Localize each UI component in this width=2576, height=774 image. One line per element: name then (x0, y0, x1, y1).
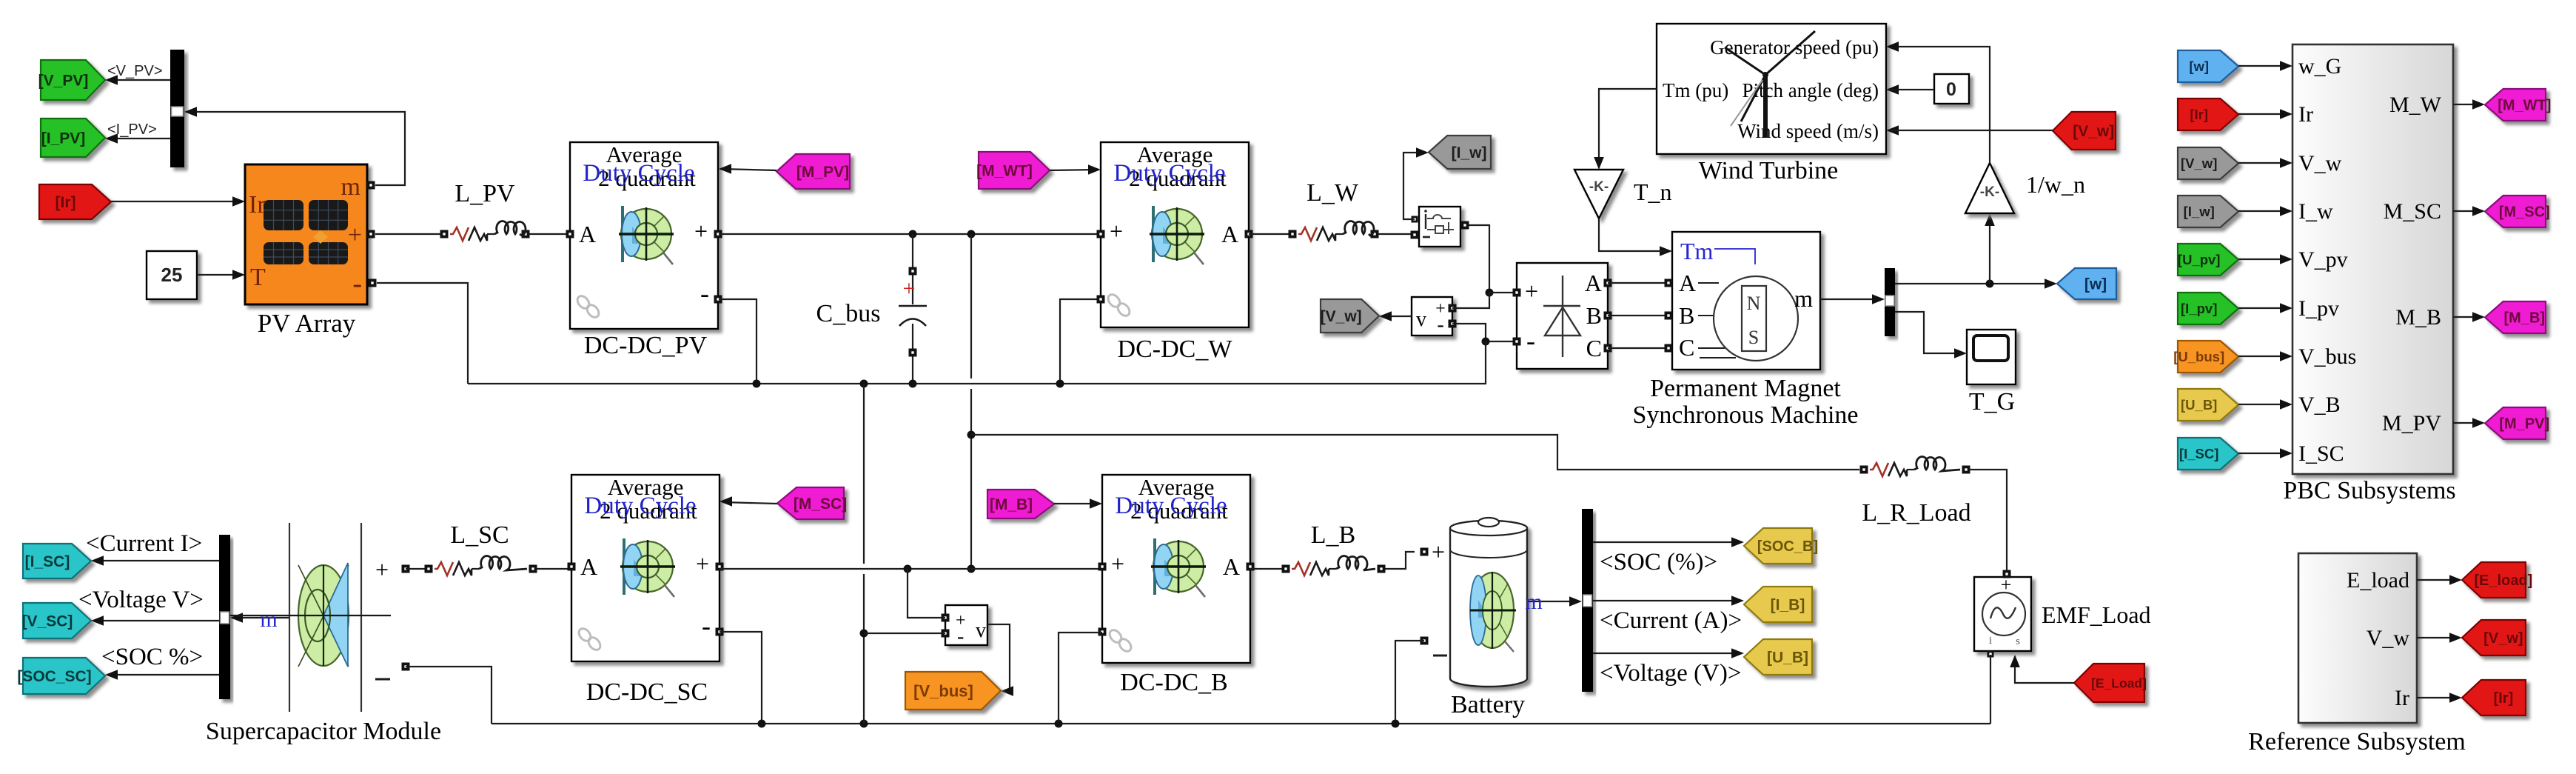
PBC input label V_bus (2298, 344, 2356, 369)
label Synchronous Machine (1632, 401, 1858, 429)
scope block T_G (1967, 330, 2016, 384)
svg-text:L_W: L_W (1307, 179, 1359, 207)
junction v+ tap (904, 565, 912, 573)
svg-text:M_SC: M_SC (2384, 199, 2441, 224)
goto tag [M_PV] (2485, 407, 2549, 439)
wire [Ir] to PBC Ir (2238, 109, 2292, 119)
svg-text:+: + (903, 276, 916, 301)
block Reference Subsystem (2298, 553, 2417, 723)
wire L_PV to DC-DC_PV A (529, 233, 570, 235)
wire bus to load (line B) (971, 435, 1859, 470)
block PBC Subsystems (2292, 44, 2453, 474)
label Reference Subsystem (2248, 728, 2466, 755)
node label <V_PV> (107, 63, 163, 79)
svg-text:v: v (976, 619, 986, 642)
svg-text:I_w: I_w (2298, 199, 2333, 224)
wire EMF_Load - to return bus (1990, 655, 1991, 724)
wire SC bar to V_SC (91, 615, 219, 626)
junction at row2 (967, 565, 976, 573)
junction DC-DC_SC minus return (758, 720, 766, 728)
svg-text:PBC Subsystems: PBC Subsystems (2283, 477, 2455, 504)
svg-text:[V_w]: [V_w] (2483, 630, 2523, 647)
label DC-DC_PV (584, 332, 708, 359)
svg-text:Duty Cycle: Duty Cycle (1115, 493, 1227, 519)
label T_G (1969, 388, 2015, 416)
label <Voltage V> (78, 587, 204, 613)
svg-text:I_pv: I_pv (2298, 296, 2339, 321)
PBC input label w_G (2298, 54, 2341, 79)
goto tag I_w (1429, 136, 1491, 169)
from tag M_SC (777, 487, 847, 519)
svg-text:25: 25 (161, 264, 183, 286)
svg-text:[U_B]: [U_B] (1767, 650, 1808, 667)
label EMF_Load (2042, 601, 2151, 628)
wire PV Array m to bus bar (184, 107, 405, 185)
wire WT Tm to gain T_n (1594, 89, 1657, 170)
label DC-DC_SC (586, 678, 708, 706)
PBC input label Ir (2298, 102, 2313, 127)
svg-text:<Current I>: <Current I> (86, 530, 202, 557)
svg-text:A: A (1679, 270, 1696, 296)
wire [U_B] to PBC V_B (2238, 399, 2292, 410)
svg-text:V_pv: V_pv (2298, 247, 2348, 272)
junction line B (967, 431, 976, 439)
svg-text:I_SC: I_SC (2298, 441, 2344, 466)
svg-text:i: i (1989, 635, 1992, 647)
svg-text:[SOC_SC]: [SOC_SC] (17, 668, 91, 685)
wire PV - down to negative bus (377, 283, 468, 384)
bus selector bar (PV measurements) (170, 50, 184, 167)
svg-text:+: + (694, 218, 708, 244)
wire [I_pv] to PBC I_pv (2238, 303, 2292, 313)
svg-text:+: + (696, 550, 709, 577)
svg-text:M_B: M_B (2395, 305, 2441, 330)
goto tag [E_load] (2462, 562, 2532, 598)
label Wind Turbine (1699, 157, 1839, 184)
inductor-resistor branch L_B (1282, 556, 1386, 576)
svg-text:M_W: M_W (2389, 93, 2442, 117)
wire voltage measurement to V_w tag (1379, 311, 1412, 321)
svg-text:A: A (580, 553, 597, 580)
svg-text:A: A (1585, 270, 1602, 296)
block Wind Turbine (1657, 24, 1886, 154)
svg-text:[U_pv]: [U_pv] (2178, 252, 2221, 267)
wire v- to rectifier - (1452, 324, 1513, 341)
wire L_W to current measurement (1378, 233, 1415, 235)
Reference output label Ir (2395, 686, 2409, 710)
svg-text:[M_WT]: [M_WT] (976, 163, 1033, 180)
wire w to gain 1/w_n (1985, 213, 1995, 284)
bus selector bar (supercapacitor) (219, 535, 230, 699)
svg-text:DC-DC_W: DC-DC_W (1118, 336, 1233, 363)
svg-text:[M_B]: [M_B] (990, 496, 1033, 513)
supercapacitor icon (230, 523, 391, 712)
svg-text:[I_SC]: [I_SC] (2179, 446, 2218, 461)
svg-text:Ir: Ir (2298, 102, 2313, 127)
wire PBC M_PV to [M_PV] (2453, 418, 2485, 428)
PBC output label M_PV (2382, 411, 2441, 436)
wire DC-DC_PV - to negative bus (719, 299, 757, 381)
wire PV + to L_PV (375, 233, 440, 235)
svg-text:Permanent Magnet: Permanent Magnet (1650, 375, 1841, 402)
goto tag I_B (1744, 587, 1812, 622)
wire battery m to measurement bar (1527, 596, 1582, 607)
svg-text:-: - (700, 278, 709, 308)
goto tag SOC_B (1744, 528, 1818, 564)
from tag [I_w] to PBC I_w (2178, 196, 2238, 227)
svg-text:<SOC %>: <SOC %> (101, 644, 203, 670)
from tag [Ir] to PBC Ir (2178, 99, 2238, 130)
svg-text:[Ir]: [Ir] (56, 194, 76, 211)
wire V_w tag to wind speed (1890, 130, 2053, 131)
from tag Ir (39, 184, 111, 219)
wire M_B to DC-DC_B (1054, 498, 1102, 509)
PBC input label I_w (2298, 199, 2333, 224)
svg-text:[SOC_B]: [SOC_B] (1757, 538, 1818, 555)
wire SC bar to I_SC (91, 556, 219, 566)
svg-text:[V_SC]: [V_SC] (22, 613, 73, 630)
bus selector bar (battery measurements) (1582, 509, 1593, 692)
voltage measurement block (wind) (1412, 297, 1457, 336)
PBC output label M_B (2395, 305, 2441, 330)
wire PMSM m to speed bus bar (1820, 294, 1885, 304)
svg-text:E_load: E_load (2347, 568, 2409, 593)
svg-text:Synchronous Machine: Synchronous Machine (1632, 401, 1858, 429)
svg-text:<Voltage (V)>: <Voltage (V)> (1600, 660, 1742, 687)
label L_B (1311, 521, 1355, 549)
wire PBC M_B to [M_B] (2453, 312, 2485, 322)
from tag V_w (wind speed) (2053, 112, 2116, 150)
junction negative bus x1167 (860, 380, 868, 388)
wire speed to scope (1895, 312, 1967, 358)
svg-text:m: m (260, 607, 277, 632)
wire DC-DC_W A to L_W (1249, 233, 1292, 235)
svg-text:Wind Turbine: Wind Turbine (1699, 157, 1839, 184)
svg-text:m: m (341, 173, 360, 201)
from tag [U_bus] to PBC V_bus (2173, 341, 2238, 373)
svg-text:Tm: Tm (1680, 238, 1714, 264)
label 1/w_n (2026, 171, 2085, 198)
wire SC bar to SOC_SC (105, 670, 219, 680)
svg-text:0: 0 (1946, 79, 1956, 100)
junction speed to gain (1986, 280, 1994, 288)
svg-text:L_B: L_B (1311, 521, 1355, 549)
svg-text:T_n: T_n (1634, 179, 1672, 205)
from tag [U_pv] to PBC V_pv (2178, 244, 2238, 276)
Reference output label E_load (2347, 568, 2409, 593)
svg-text:C: C (1586, 335, 1602, 361)
junction DC-DC_B minus return (1055, 720, 1063, 728)
label <SOC (%)> (1600, 549, 1717, 576)
PBC output label M_SC (2384, 199, 2441, 224)
label <Current (A)> (1600, 607, 1742, 634)
svg-text:<Current (A)>: <Current (A)> (1600, 607, 1742, 634)
converter block DC-DC_W (1097, 141, 1253, 327)
goto tag V_PV (38, 60, 105, 100)
svg-text:-: - (702, 611, 711, 641)
wire [V_w] to PBC V_w (2238, 158, 2292, 168)
wire PMSM Tm input (1660, 246, 1672, 256)
svg-text:Reference Subsystem: Reference Subsystem (2248, 728, 2466, 755)
label L_PV (455, 180, 515, 207)
gain block 1/w_n (1965, 163, 2014, 213)
wire bar to I_B (1593, 595, 1744, 606)
wire constant 0 to pitch angle (1890, 89, 1934, 90)
wire [U_pv] to PBC V_pv (2238, 254, 2292, 264)
svg-text:-K-: -K- (1980, 184, 1999, 200)
PBC output label M_W (2389, 93, 2442, 117)
from tag E_Load (2074, 664, 2147, 702)
label m (battery) (1525, 590, 1542, 614)
svg-text:Duty Cycle: Duty Cycle (583, 160, 694, 187)
svg-text:+: + (1111, 550, 1124, 577)
wire rectifier B to PMSM B (1608, 315, 1672, 316)
goto tag I_PV (41, 119, 105, 157)
rectifier block (diode bridge) (1513, 263, 1612, 369)
converter block DC-DC_B (1099, 474, 1255, 663)
svg-text:A: A (579, 221, 596, 247)
svg-text:DC-DC_SC: DC-DC_SC (586, 678, 708, 706)
PBC input label V_w (2298, 151, 2342, 176)
wire [w] to PBC w_G (2238, 61, 2292, 71)
svg-text:[V_PV]: [V_PV] (38, 73, 89, 90)
from tag [w] to PBC w_G (2178, 50, 2238, 82)
junction rectifier minus node (1482, 338, 1490, 346)
svg-text:[Ir]: [Ir] (2190, 107, 2208, 122)
from tag [V_w] to PBC V_w (2178, 147, 2238, 179)
wire L_SC to DC-DC_SC A (537, 568, 571, 570)
svg-text:L_R_Load: L_R_Load (1862, 499, 1970, 527)
svg-text:Duty Cycle: Duty Cycle (1113, 160, 1225, 187)
wire gain to wind turbine generator speed (1886, 41, 1990, 163)
label Permanent Magnet (1650, 375, 1841, 402)
svg-text:A: A (1223, 553, 1240, 580)
Reference output label V_w (2367, 626, 2410, 650)
svg-text:C: C (1679, 334, 1694, 361)
svg-text:m: m (1794, 285, 1813, 312)
wire current measurement to rectifier + (1469, 225, 1489, 293)
goto tag [M_WT] (2485, 89, 2551, 121)
wire SC + to L_SC (406, 568, 429, 570)
negative DC bus wire (468, 383, 1486, 384)
svg-text:V_w: V_w (2367, 626, 2410, 650)
wire DC-DC_B A to L_B (1250, 568, 1286, 570)
svg-text:L_SC: L_SC (450, 521, 509, 549)
capacitor C_bus (899, 234, 927, 384)
svg-text:[w]: [w] (2084, 276, 2107, 293)
svg-text:+: + (1432, 538, 1445, 565)
PBC input label I_SC (2298, 441, 2344, 466)
svg-text:[M_B]: [M_B] (2504, 310, 2546, 327)
wire negative bus to return bus (863, 384, 865, 724)
svg-text:v: v (1416, 308, 1426, 331)
wire WT wind speed input (1886, 125, 1899, 136)
svg-text:[I_pv]: [I_pv] (2181, 301, 2217, 316)
PBC input label I_pv (2298, 296, 2339, 321)
svg-text:Battery: Battery (1451, 691, 1525, 718)
svg-text:[U_B]: [U_B] (2181, 397, 2217, 413)
wire SC - to return bus (406, 667, 492, 724)
wire rectifier C to PMSM C (1608, 347, 1672, 349)
svg-text:Wind speed (m/s): Wind speed (m/s) (1737, 120, 1879, 142)
wire DC-DC_SC + to DC-DC_B + (720, 568, 1102, 570)
svg-text:Pitch angle (deg): Pitch angle (deg) (1743, 79, 1879, 101)
label DC-DC_W (1118, 336, 1233, 363)
constant block 0 (1934, 74, 1969, 104)
wire DC bus down branch (970, 234, 972, 569)
from tag M_WT (976, 152, 1050, 189)
mux bar (generator speed) (1885, 268, 1895, 336)
svg-text:EMF_Load: EMF_Load (2042, 601, 2151, 628)
wire L_R_Load to EMF_Load + (1970, 470, 2007, 570)
svg-text:[M_SC]: [M_SC] (794, 496, 847, 513)
from tag [I_SC] to PBC I_SC (2178, 438, 2238, 470)
svg-text:+: + (348, 221, 362, 249)
junction battery minus return (1392, 720, 1400, 728)
wire M_SC to DC-DC_SC (720, 496, 777, 507)
svg-text:[V_w]: [V_w] (1321, 308, 1362, 325)
svg-text:1/w_n: 1/w_n (2026, 171, 2085, 198)
svg-text:DC-DC_PV: DC-DC_PV (584, 332, 708, 359)
svg-text:T: T (250, 264, 266, 291)
svg-text:B: B (1586, 302, 1602, 329)
svg-text:T_G: T_G (1969, 388, 2015, 416)
wire bus+ to voltage measurement (908, 569, 945, 618)
svg-text:Ir: Ir (2395, 686, 2409, 710)
controlled voltage source EMF_Load (1974, 570, 2031, 658)
svg-text:B: B (1679, 302, 1694, 329)
svg-text:M_PV: M_PV (2382, 411, 2441, 436)
svg-text:[V_bus]: [V_bus] (913, 681, 973, 700)
from tag [I_pv] to PBC I_pv (2178, 293, 2238, 324)
wire bar to SOC_B (1593, 537, 1744, 547)
inductor-resistor branch L_R_Load (1860, 457, 1970, 476)
label DC-DC_B (1120, 669, 1227, 696)
wire PBC M_W to [M_WT] (2453, 99, 2485, 110)
wire WT pitch angle input (1886, 84, 1899, 95)
svg-text:Supercapacitor Module: Supercapacitor Module (206, 718, 441, 745)
goto tag [Ir] (2462, 680, 2526, 715)
junction v- tap (860, 630, 868, 638)
goto tag [V_w] (2462, 620, 2526, 655)
svg-text:w_G: w_G (2298, 54, 2341, 79)
wire speed to w tag (1895, 278, 2057, 289)
wire v+ to rectifier node (1452, 293, 1489, 308)
wire constant 25 to PV Array T (197, 270, 245, 280)
constant block 25 (147, 251, 197, 299)
svg-text:L_PV: L_PV (455, 180, 515, 207)
svg-text:[M_WT]: [M_WT] (2498, 98, 2551, 114)
svg-text:PV Array: PV Array (258, 309, 356, 338)
svg-text:-: - (1526, 326, 1535, 356)
goto tag I_SC (23, 544, 91, 578)
wire bus- to voltage measurement (864, 633, 945, 634)
svg-text:V_B: V_B (2298, 393, 2341, 417)
svg-text:V_bus: V_bus (2298, 344, 2356, 369)
goto tag [M_SC] (2485, 196, 2550, 227)
svg-text:-: - (957, 625, 964, 648)
goto tag SOC_SC (17, 658, 105, 694)
wire battery - to return bus (1395, 641, 1424, 721)
svg-text:-: - (1437, 313, 1443, 336)
svg-text:m: m (1525, 590, 1542, 614)
label PBC Subsystems (2283, 477, 2455, 504)
svg-text:<SOC (%)>: <SOC (%)> (1600, 549, 1717, 576)
junction x1167 return (860, 720, 868, 728)
goto tag V_w wind (1321, 299, 1379, 333)
wire DC-DC_SC - to return bus (720, 632, 762, 721)
label Battery (1451, 691, 1525, 718)
from tag [U_B] to PBC V_B (2178, 389, 2238, 421)
svg-text:Tm (pu): Tm (pu) (1663, 79, 1728, 101)
wire [U_bus] to PBC V_bus (2238, 351, 2292, 361)
label <Voltage (V)> (1600, 660, 1742, 687)
svg-text:DC-DC_B: DC-DC_B (1120, 669, 1227, 696)
load return bus wire (492, 723, 1990, 724)
current measurement block I_w (1411, 207, 1469, 247)
svg-text:A: A (1221, 221, 1238, 247)
svg-text:[I_w]: [I_w] (1452, 144, 1487, 161)
svg-text:Duty Cycle: Duty Cycle (584, 493, 696, 519)
junction DC-DC_W minus (1056, 380, 1064, 388)
supercapacitor - port (375, 663, 410, 680)
from tag M_PV (777, 154, 850, 189)
junction C_bus bottom (909, 380, 917, 388)
supercapacitor + port (375, 556, 410, 583)
svg-text:[E_Load]: [E_Load] (2091, 675, 2147, 690)
junction at vbus branch top (967, 230, 976, 238)
svg-text:+: + (1525, 278, 1538, 304)
block Battery (1421, 518, 1528, 687)
wire current measurement to I_w tag (1403, 147, 1429, 219)
wire E_Load to EMF_Load signal (2010, 655, 2074, 683)
gain block T_n (1574, 170, 1623, 218)
svg-text:-: - (352, 268, 362, 299)
svg-text:S: S (1748, 327, 1759, 348)
label T_n (1634, 179, 1672, 205)
wire [I_w] to PBC I_w (2238, 206, 2292, 216)
block PV Array (245, 164, 377, 304)
label L_W (1307, 179, 1359, 207)
junction rectifier plus node (1486, 289, 1494, 297)
inductor-resistor branch L_PV (440, 221, 530, 241)
label L_SC (450, 521, 509, 549)
node label <I_PV> (107, 121, 157, 138)
label <Current I> (86, 530, 202, 557)
svg-text:V_w: V_w (2298, 151, 2342, 176)
PBC input label V_pv (2298, 247, 2348, 272)
svg-text:<V_PV>: <V_PV> (107, 63, 163, 79)
svg-text:-K-: -K- (1589, 179, 1609, 195)
svg-text:[E_load]: [E_load] (2474, 573, 2532, 589)
wire rectifier A to PMSM A (1608, 282, 1672, 284)
inductor-resistor branch L_SC (425, 556, 537, 576)
wire Reference Ir to [Ir] (2417, 693, 2462, 703)
svg-text:[I_PV]: [I_PV] (41, 130, 86, 147)
wire DC-DC_W - to negative bus (1060, 299, 1101, 381)
wire SC m to bar (230, 613, 289, 623)
wire bar to U_B (1593, 648, 1744, 658)
label m (supercapacitor) (260, 607, 277, 632)
wire Reference V_w to [V_w] (2417, 633, 2462, 643)
svg-text:[w]: [w] (2189, 59, 2209, 74)
wire M_PV to DC-DC_PV (719, 164, 777, 174)
wire DC-DC_PV + to DC-DC_W + (719, 233, 1101, 235)
goto tag V_SC (22, 603, 91, 638)
from tag M_B (987, 490, 1054, 518)
svg-text:[M_PV]: [M_PV] (796, 164, 849, 181)
svg-text:[M_SC]: [M_SC] (2499, 204, 2550, 221)
